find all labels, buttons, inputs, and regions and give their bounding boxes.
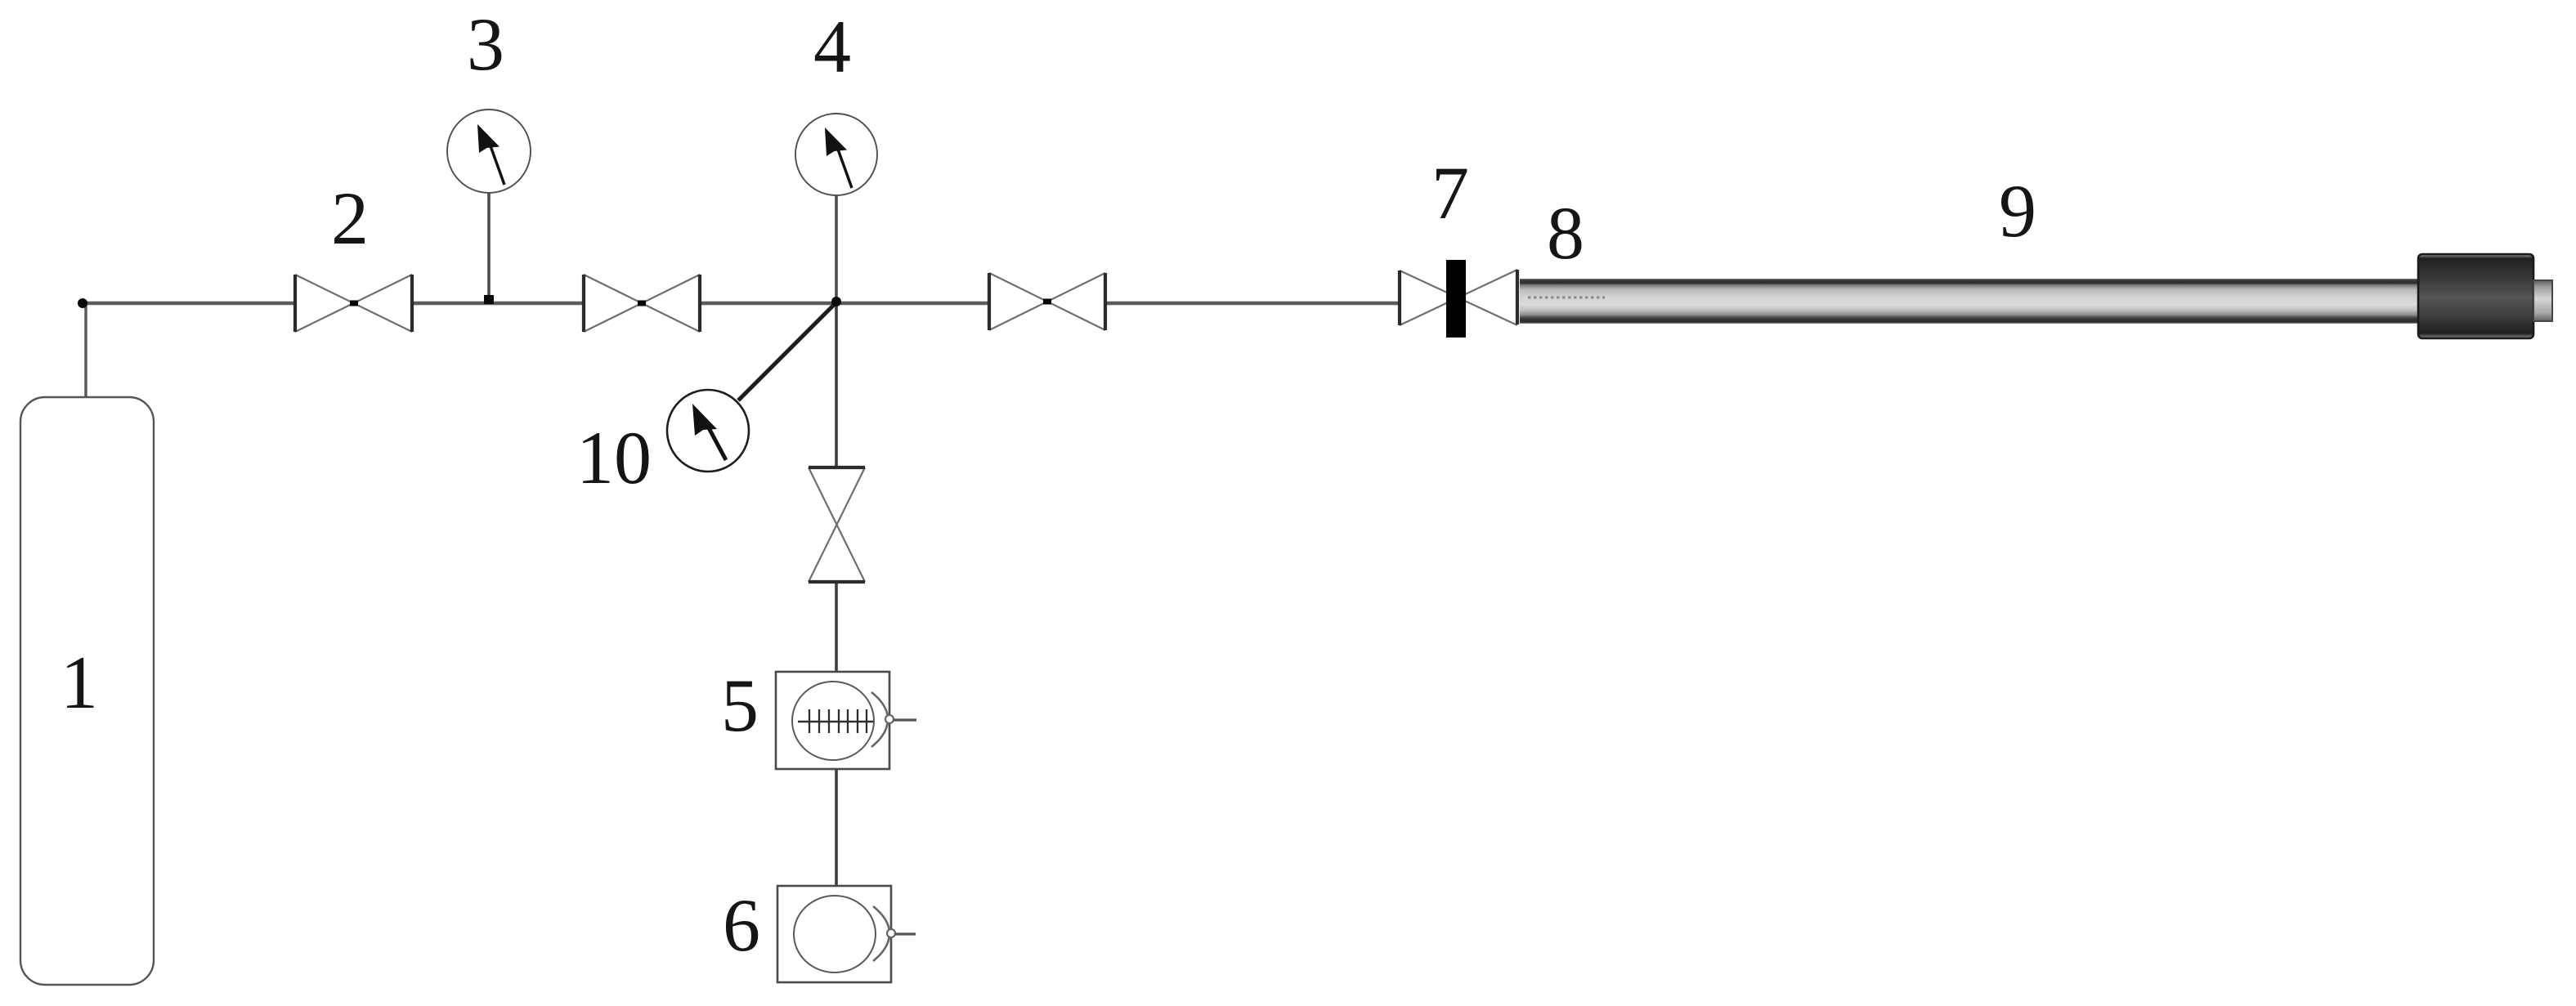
svg-text:2: 2 (331, 177, 369, 260)
svg-text:9: 9 (1999, 169, 2036, 253)
svg-text:8: 8 (1547, 191, 1584, 275)
svg-text:5: 5 (721, 664, 759, 747)
svg-text:7: 7 (1431, 151, 1469, 235)
svg-text:3: 3 (467, 2, 504, 86)
svg-text:10: 10 (576, 416, 652, 499)
svg-text:6: 6 (723, 883, 760, 967)
svg-text:1: 1 (60, 641, 98, 724)
svg-text:4: 4 (813, 5, 851, 88)
